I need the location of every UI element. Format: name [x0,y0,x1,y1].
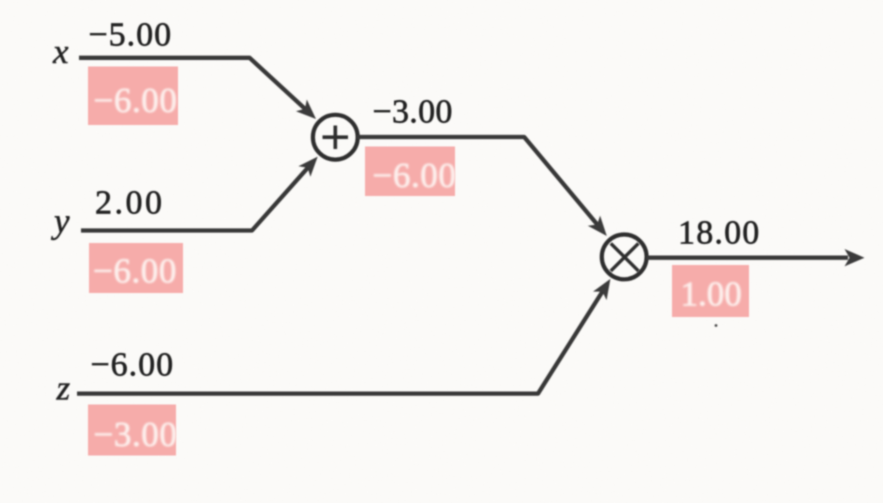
plus sign [323,126,349,150]
svg-text:z: z [56,369,71,408]
sum node circle (+) [313,115,358,160]
output arrowhead [845,249,865,266]
svg-text:−6.00: −6.00 [93,252,177,291]
wire y to sum node [81,166,309,230]
svg-text:−3.00: −3.00 [94,415,178,454]
gradient box y: -6.00 [89,243,183,293]
gradient box x: -6.00 [88,67,178,126]
svg-text:y: y [51,202,70,241]
svg-text:1.00: 1.00 [681,275,742,314]
wire x to sum node [79,58,307,110]
svg-text:18.00: 18.00 [678,215,761,252]
arrowhead x into sum node [296,100,316,120]
svg-text:−3.00: −3.00 [373,94,453,131]
gradient box product node: 1.00 [672,265,749,317]
arrowhead y into sum node [298,157,317,177]
svg-text:−5.00: −5.00 [89,16,173,53]
wire z to product node [77,290,604,394]
arrowhead sum output into product node [588,216,607,236]
svg-text:2.00: 2.00 [95,184,165,221]
svg-text:x: x [52,32,69,71]
product node circle (x) [602,235,647,280]
times sign [611,243,639,271]
svg-text:−6.00: −6.00 [94,81,178,120]
output wire [647,256,849,260]
gradient box z: -3.00 [88,405,176,456]
gradient box sum node: -6.00 [365,147,455,197]
arrowhead z into product node [593,279,610,300]
wire sum node to product node [357,137,599,226]
speck artifact [715,324,718,327]
svg-text:−6.00: −6.00 [91,347,175,384]
svg-text:−6.00: −6.00 [373,156,457,195]
